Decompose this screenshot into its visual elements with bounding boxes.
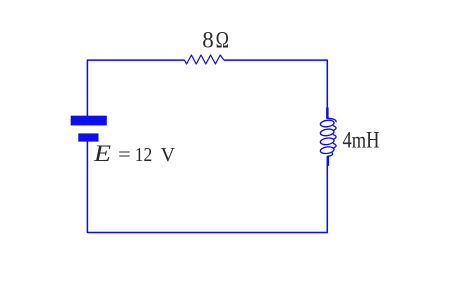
- inductor top connector arc: [327, 118, 336, 122]
- svg-text:E: E: [93, 141, 111, 166]
- svg-text:V: V: [161, 144, 176, 166]
- inductor L 4mH: [320, 108, 336, 166]
- inductor bottom connector arc: [328, 153, 333, 157]
- inductor connector 3-4: [333, 143, 336, 148]
- svg-text:4mH: 4mH: [343, 128, 380, 153]
- svg-text:=: =: [118, 144, 131, 166]
- wire right-bottom-left: inductor bottom to bottom-right corner, bottom wire, up to battery bottom plate: [87, 141, 327, 232]
- inductor top lead stub: [326, 108, 329, 119]
- inductor connector 2-3: [333, 135, 336, 140]
- inductor loop 2: [320, 128, 335, 136]
- svg-text:12: 12: [135, 144, 153, 166]
- battery E: short negative plate: [78, 133, 98, 141]
- inductor loop 1: [320, 119, 335, 127]
- wire left: battery top plate to top-left corner to resistor left lead: [87, 60, 184, 116]
- inductor loop 4: [320, 146, 335, 154]
- inductor connector 1-2: [333, 126, 336, 131]
- wire top-right: resistor right lead to top-right corner down to inductor top: [224, 60, 327, 108]
- resistor R 8ohm zigzag: [184, 55, 224, 64]
- inductor bottom lead stub: [327, 156, 330, 166]
- battery E: long positive plate: [71, 116, 107, 126]
- svg-text:8: 8: [202, 28, 214, 53]
- inductor loop 3: [320, 137, 335, 145]
- svg-text:Ω: Ω: [216, 28, 229, 53]
